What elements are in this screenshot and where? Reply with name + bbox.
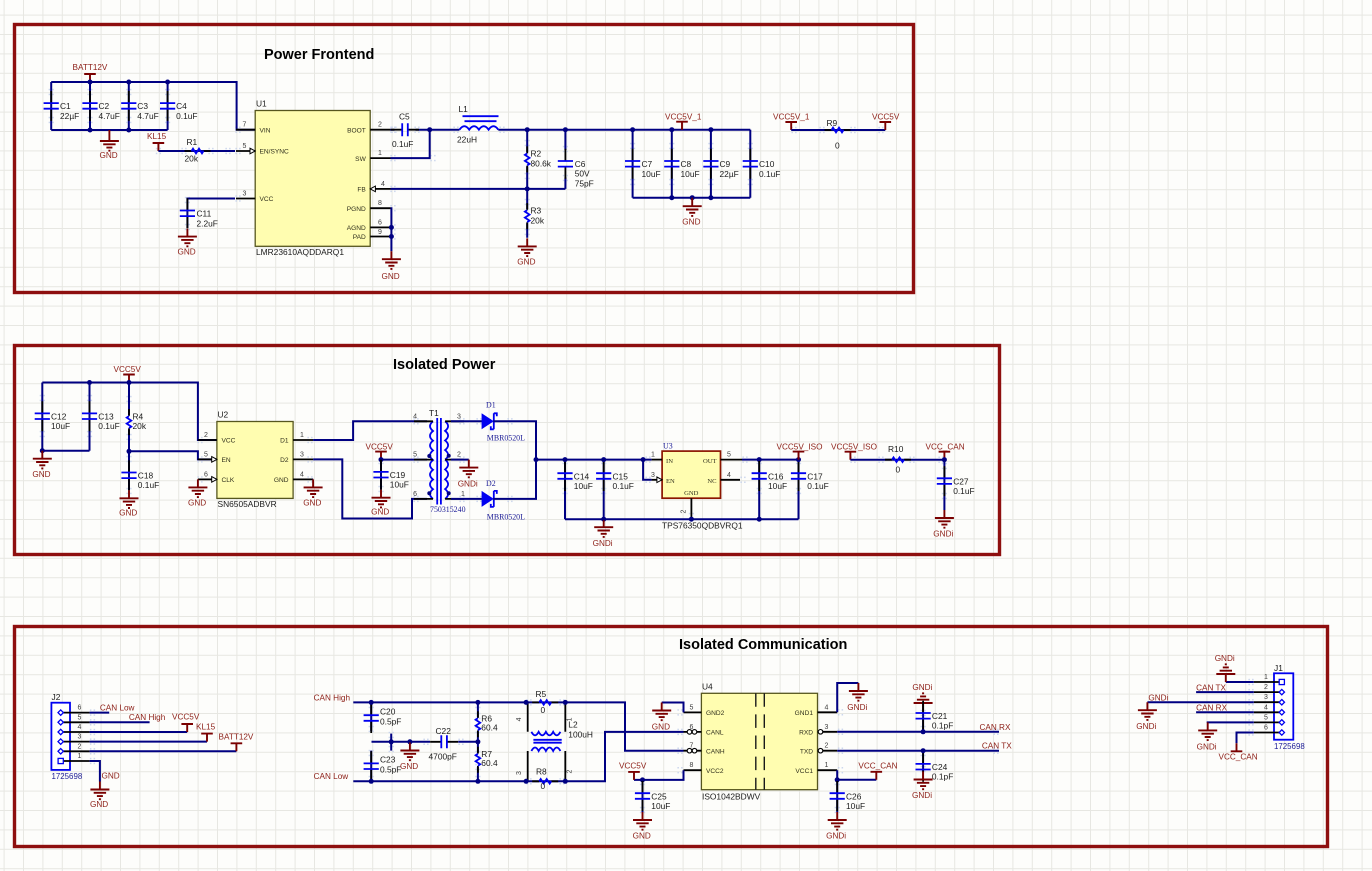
Isolated Power section border — [15, 346, 1000, 555]
svg-text:VCC: VCC — [222, 438, 236, 445]
svg-text:VCC5V_1: VCC5V_1 — [665, 113, 702, 122]
resistor R7 60.4 — [476, 742, 498, 782]
svg-text:VCC5V_ISO: VCC5V_ISO — [777, 442, 823, 451]
J1 pin 3 — [1254, 694, 1285, 705]
svg-text:10uF: 10uF — [51, 421, 70, 431]
ground GND J2 — [90, 782, 109, 810]
junction dots filter — [369, 700, 413, 784]
ground GND C18 — [119, 490, 138, 517]
svg-text:RXD: RXD — [799, 730, 813, 737]
svg-text:C2: C2 — [99, 101, 110, 111]
capacitor C15 — [596, 460, 634, 520]
svg-text:1: 1 — [378, 150, 382, 157]
junction PAD — [389, 234, 394, 239]
svg-text:C6: C6 — [575, 159, 586, 169]
svg-text:10uF: 10uF — [846, 801, 865, 811]
svg-text:C9: C9 — [720, 159, 731, 169]
capacitor C21 — [916, 701, 954, 732]
wire R10 link — [850, 459, 944, 461]
svg-text:MBR0520L: MBR0520L — [487, 434, 525, 443]
capacitor C19 — [373, 460, 408, 490]
svg-text:10uF: 10uF — [390, 480, 409, 490]
U2 pin 6 CLK — [198, 471, 235, 484]
U3 pin 3 EN — [651, 472, 675, 485]
wire T1 pin5 — [381, 459, 427, 461]
svg-text:3: 3 — [1264, 694, 1268, 701]
wire J2 pin3 KL15 — [90, 741, 207, 743]
junction R4/C18/EN — [127, 449, 132, 454]
junction R2 top — [525, 127, 530, 132]
svg-text:GNDi: GNDi — [1215, 654, 1235, 663]
ground GNDi J1 pin5 — [1197, 722, 1218, 751]
wire RXD CAN RX — [837, 731, 999, 733]
resistor R9 0 — [825, 118, 851, 151]
junction C25 — [640, 777, 645, 782]
wire U3 OUT — [742, 459, 799, 461]
power port BATT12V J2 — [219, 732, 254, 751]
resistor R10 0 — [885, 444, 911, 475]
svg-text:L1: L1 — [459, 104, 469, 114]
wire KL15 to EN — [158, 150, 235, 152]
capacitor C27 — [937, 460, 975, 510]
junction dots L2 — [524, 700, 568, 784]
svg-text:6: 6 — [413, 491, 417, 498]
wire D2 to T1 pin6 — [313, 459, 427, 518]
U1 pin 3 VCC — [236, 191, 274, 204]
U2 pin 4 GND — [274, 471, 313, 484]
svg-text:9: 9 — [378, 229, 382, 236]
svg-text:C4: C4 — [176, 101, 187, 111]
svg-text:2: 2 — [204, 432, 208, 439]
svg-text:CAN Low: CAN Low — [100, 703, 135, 712]
U1 pin 7 VIN — [236, 122, 271, 135]
svg-text:GNDi: GNDi — [1197, 742, 1217, 751]
wire filter mid bus — [372, 741, 430, 743]
ground GNDi C26 — [826, 812, 847, 840]
svg-text:Power Frontend: Power Frontend — [264, 47, 374, 63]
diode D1 MBR0520L — [482, 401, 526, 443]
diode D2 MBR0520L — [482, 479, 526, 522]
svg-text:GND: GND — [32, 470, 50, 479]
svg-text:4: 4 — [413, 413, 417, 420]
svg-text:6: 6 — [204, 471, 208, 478]
svg-text:GND: GND — [400, 762, 418, 771]
svg-text:2: 2 — [378, 122, 382, 129]
junction C6 top — [563, 127, 568, 132]
wire D1 cathode — [493, 421, 536, 459]
svg-text:4: 4 — [727, 472, 731, 479]
wire input top bus — [51, 82, 255, 130]
ground GNDi C15 — [593, 519, 614, 548]
connector J1 body — [1274, 673, 1293, 739]
U3 pin 5 OUT — [703, 452, 742, 465]
svg-text:0.1uF: 0.1uF — [98, 421, 119, 431]
svg-text:C13: C13 — [98, 412, 114, 422]
wire J1 pin5 GNDi — [1208, 721, 1254, 724]
junction diode outputs — [534, 457, 539, 462]
capacitor C26 — [830, 780, 865, 812]
svg-text:GND: GND — [178, 248, 196, 257]
svg-text:ISO1042BDWV: ISO1042BDWV — [702, 792, 761, 802]
capacitor C18 — [121, 451, 159, 490]
capacitor C22 4700pF — [429, 726, 478, 762]
svg-text:D1: D1 — [280, 438, 289, 445]
svg-text:GNDi: GNDi — [1136, 722, 1156, 731]
transformer T1 secondary winding upper — [445, 421, 448, 459]
svg-text:C23: C23 — [380, 755, 396, 765]
connector J2 body — [51, 703, 70, 770]
svg-text:2: 2 — [567, 770, 574, 774]
wire T1 pin2 to GNDi — [451, 459, 469, 461]
svg-text:C26: C26 — [846, 791, 862, 801]
U3 pin 4 NC — [707, 472, 740, 485]
transformer T1 pin leads — [414, 421, 464, 499]
wire D2 cathode — [493, 460, 536, 499]
J2 pin 5 — [58, 714, 90, 725]
svg-text:GND: GND — [652, 723, 670, 732]
svg-text:GNDi: GNDi — [1148, 693, 1168, 702]
svg-text:C1: C1 — [60, 101, 71, 111]
ground GND GND2 — [652, 703, 671, 732]
resistor R5 0 — [526, 689, 565, 715]
svg-text:C10: C10 — [759, 159, 775, 169]
wire R9 link — [791, 129, 885, 131]
svg-text:C5: C5 — [399, 112, 410, 122]
svg-text:VCC5V: VCC5V — [172, 713, 200, 722]
svg-text:U2: U2 — [218, 410, 229, 420]
ground GNDi T1 — [458, 460, 479, 489]
wire J2 pin2 BATT12V — [90, 750, 237, 752]
U3 pin 1 IN — [651, 452, 673, 465]
svg-text:VCC5V_1: VCC5V_1 — [773, 113, 810, 122]
svg-text:C22: C22 — [436, 726, 452, 736]
svg-text:C16: C16 — [768, 471, 784, 481]
U4 pin 3 RXD — [799, 724, 837, 737]
svg-text:GND: GND — [303, 499, 321, 508]
svg-text:VCC5V: VCC5V — [114, 365, 142, 374]
svg-text:SN6505ADBVR: SN6505ADBVR — [218, 499, 277, 509]
svg-text:0.1uF: 0.1uF — [138, 480, 159, 490]
svg-text:1725698: 1725698 — [1274, 742, 1305, 751]
svg-text:U1: U1 — [256, 99, 267, 109]
wire J1 pin3 GNDi — [1147, 701, 1253, 703]
J2 pin 6 — [58, 705, 90, 716]
svg-text:2.2uF: 2.2uF — [197, 219, 218, 229]
svg-text:VCC_CAN: VCC_CAN — [1219, 753, 1258, 762]
svg-text:J1: J1 — [1274, 663, 1283, 673]
svg-text:VCC_CAN: VCC_CAN — [926, 442, 965, 451]
svg-text:22uH: 22uH — [457, 135, 477, 145]
svg-text:1: 1 — [461, 491, 465, 498]
svg-text:20k: 20k — [185, 154, 199, 164]
power port VCC_CAN — [926, 442, 965, 459]
svg-text:0.1pF: 0.1pF — [932, 772, 953, 782]
power port VCC5V_ISO link — [831, 442, 877, 459]
U1 pin 4 FB — [357, 181, 390, 194]
capacitor C9 — [703, 130, 738, 198]
transformer T1 core — [437, 418, 441, 505]
svg-text:10uF: 10uF — [768, 481, 787, 491]
svg-text:2: 2 — [1264, 684, 1268, 691]
svg-text:CLK: CLK — [222, 477, 235, 484]
svg-text:U4: U4 — [702, 682, 713, 692]
svg-text:8: 8 — [378, 200, 382, 207]
svg-text:0.1pF: 0.1pF — [932, 721, 953, 731]
U2 pin 2 VCC — [198, 432, 236, 445]
svg-text:KL15: KL15 — [147, 132, 167, 141]
svg-text:0.5pF: 0.5pF — [380, 717, 401, 727]
svg-text:2: 2 — [825, 743, 829, 750]
svg-text:6: 6 — [378, 219, 382, 226]
svg-text:60.4: 60.4 — [481, 722, 498, 732]
power port VCC5V input — [114, 365, 142, 383]
svg-text:VCC5V: VCC5V — [366, 442, 394, 451]
svg-text:50V: 50V — [575, 169, 590, 179]
svg-text:R1: R1 — [187, 137, 198, 147]
svg-text:1: 1 — [651, 452, 655, 459]
svg-text:4: 4 — [516, 717, 523, 721]
J1 pin 1 — [1254, 674, 1285, 685]
capacitor C16 — [752, 460, 787, 520]
svg-text:T1: T1 — [429, 408, 439, 418]
svg-text:EN: EN — [666, 478, 675, 485]
svg-text:GNDi: GNDi — [593, 539, 613, 548]
svg-text:OUT: OUT — [703, 458, 717, 465]
svg-text:BOOT: BOOT — [347, 127, 366, 134]
wire CANL route — [565, 732, 683, 781]
svg-text:0: 0 — [896, 465, 901, 475]
transistor driver U2 body — [217, 422, 293, 499]
svg-text:22µF: 22µF — [720, 169, 739, 179]
J2 pin 1 — [58, 753, 89, 764]
ground GNDi C27 — [933, 510, 954, 539]
svg-text:D2: D2 — [486, 479, 496, 488]
svg-text:1: 1 — [1264, 674, 1268, 681]
ground GND input caps — [100, 130, 119, 160]
Isolated Communication section border — [15, 627, 1328, 847]
svg-text:7: 7 — [243, 122, 247, 129]
svg-text:4.7uF: 4.7uF — [137, 111, 158, 121]
wire VCC5V top bus — [42, 383, 217, 441]
wire input bottom bus — [51, 129, 167, 131]
svg-text:20k: 20k — [531, 216, 545, 226]
svg-text:EN/SYNC: EN/SYNC — [260, 149, 290, 156]
svg-text:GND: GND — [517, 257, 535, 266]
power port VCC5V U4 — [619, 761, 647, 780]
junction C27 — [942, 457, 947, 462]
svg-text:GND: GND — [633, 831, 651, 840]
wire PGND/AGND/PAD — [390, 208, 393, 251]
svg-text:C11: C11 — [197, 209, 212, 219]
ground GND C19 — [371, 490, 390, 517]
svg-text:20k: 20k — [133, 421, 147, 431]
capacitor C24 — [916, 751, 954, 782]
capacitor C14 — [557, 460, 592, 520]
inductor L2 top coil — [531, 732, 560, 736]
power port BATT12V — [73, 63, 108, 82]
svg-text:C15: C15 — [613, 471, 629, 481]
ground GND C12 — [32, 451, 51, 479]
ground GND R3 — [517, 238, 536, 266]
svg-text:KL15: KL15 — [196, 722, 216, 731]
ground GNDi J1 pin3 symbol — [1136, 702, 1157, 731]
wire J1 pin2 CAN TX — [1196, 691, 1254, 693]
svg-text:4: 4 — [381, 181, 385, 188]
junction C26 — [835, 777, 840, 782]
transformer T1 primary winding — [430, 421, 433, 499]
svg-text:C20: C20 — [380, 707, 396, 717]
svg-text:4: 4 — [300, 471, 304, 478]
svg-text:LMR23610AQDDARQ1: LMR23610AQDDARQ1 — [256, 247, 344, 257]
junction C24 TXD — [921, 748, 926, 753]
resistor R2 80.6k — [525, 130, 552, 189]
capacitor C17 — [791, 460, 829, 520]
J1 pin 2 — [1254, 684, 1285, 695]
svg-text:VCC5V: VCC5V — [619, 761, 647, 770]
U1 pin 1 SW — [355, 150, 390, 163]
transformer polarity dots — [427, 454, 450, 496]
U1 pin 6 AGND — [347, 219, 391, 232]
U4 isolation dashed lines — [756, 693, 765, 789]
wire D1 to T1 pin4 — [313, 421, 427, 440]
ground GNDi J1 pin1 — [1215, 654, 1236, 682]
wire J2 pin1 GND — [90, 761, 100, 782]
svg-text:Isolated Power: Isolated Power — [393, 357, 496, 373]
svg-text:EN: EN — [222, 457, 231, 464]
ground GND C11 — [178, 229, 197, 257]
wire BOOT to C5 — [390, 129, 393, 131]
svg-text:6: 6 — [78, 705, 82, 712]
svg-text:GNDi: GNDi — [458, 480, 478, 489]
U2 pin 5 EN — [198, 451, 231, 464]
ground GND CLK — [188, 479, 207, 507]
capacitor C5 0.1uF — [391, 112, 430, 150]
junction dots C14 C15 — [563, 457, 646, 522]
J2 pin 3 — [58, 734, 90, 745]
svg-text:VCC2: VCC2 — [706, 768, 724, 775]
svg-text:5: 5 — [690, 704, 694, 711]
svg-text:CANL: CANL — [706, 730, 724, 737]
J1 pin 6 — [1254, 725, 1285, 736]
wire SW output rail — [430, 129, 751, 131]
power port VCC5V_1 link — [773, 113, 810, 131]
svg-text:1725698: 1725698 — [52, 772, 83, 781]
junction C21 RXD — [921, 729, 926, 734]
svg-text:3: 3 — [243, 191, 247, 198]
svg-text:VIN: VIN — [260, 127, 271, 134]
svg-text:2: 2 — [78, 743, 82, 750]
svg-text:60.4: 60.4 — [481, 758, 498, 768]
wire SW loop — [391, 130, 430, 158]
svg-text:GND: GND — [188, 499, 206, 508]
U1 pin 8 PGND — [347, 200, 391, 213]
wire CAN Low — [353, 780, 526, 782]
svg-text:80.6k: 80.6k — [531, 159, 552, 169]
svg-text:7: 7 — [690, 743, 694, 750]
ground GND U2 — [303, 479, 322, 507]
J1 pin 4 — [1254, 704, 1285, 715]
wire J2 pin6 CAN Low — [90, 712, 110, 714]
svg-text:CAN RX: CAN RX — [980, 723, 1011, 732]
svg-text:C14: C14 — [574, 471, 590, 481]
regulator output bottom bus — [565, 518, 799, 520]
transformer T1 secondary winding lower — [445, 460, 448, 499]
U4 pin 8 VCC2 — [684, 762, 724, 775]
svg-text:0.1uF: 0.1uF — [953, 486, 974, 496]
svg-text:GND2: GND2 — [706, 710, 725, 717]
ground GNDi C21 top — [912, 683, 932, 711]
U4 pin 4 GND1 — [795, 704, 838, 717]
capacitor C10 — [743, 130, 781, 198]
svg-text:6: 6 — [690, 724, 694, 731]
wire EN branch U3 — [643, 460, 652, 480]
svg-text:TXD: TXD — [800, 748, 813, 755]
capacitor C12 — [35, 383, 70, 451]
power port VCC_CAN J1 — [1219, 743, 1258, 761]
svg-text:1: 1 — [78, 753, 82, 760]
T1 pin numbers — [413, 413, 465, 498]
junction BOOT/SW — [427, 127, 432, 132]
power port VCC5V T1 — [366, 442, 394, 459]
resistor R4 20k — [127, 383, 147, 452]
svg-text:C18: C18 — [138, 471, 154, 481]
svg-text:10uF: 10uF — [574, 481, 593, 491]
svg-text:6: 6 — [1264, 725, 1268, 732]
svg-text:FB: FB — [357, 187, 366, 194]
svg-text:C3: C3 — [137, 101, 148, 111]
svg-text:J2: J2 — [52, 692, 61, 702]
svg-text:10uF: 10uF — [642, 169, 661, 179]
power port VCC5V J2 — [172, 713, 200, 732]
svg-text:CANH: CANH — [706, 748, 725, 755]
regulator U3 body — [662, 451, 720, 498]
U4 pin 7 CANH — [684, 743, 725, 756]
U4 pin 6 CANL — [684, 724, 724, 737]
power port KL15 J2 — [196, 722, 216, 741]
wire VCC1 — [837, 770, 876, 780]
capacitor C25 — [635, 780, 670, 812]
svg-text:L2: L2 — [568, 720, 578, 730]
resistor R8 0 — [526, 766, 565, 791]
svg-text:0: 0 — [541, 781, 546, 791]
inductor L2 core — [533, 740, 561, 743]
svg-text:5: 5 — [413, 452, 417, 459]
svg-text:22µF: 22µF — [60, 111, 79, 121]
svg-text:3: 3 — [457, 413, 461, 420]
svg-text:0.5pF: 0.5pF — [380, 765, 401, 775]
Power Frontend section border — [15, 25, 914, 293]
inductor L2 bottom coil — [531, 748, 560, 752]
power port VCC5V — [872, 113, 900, 131]
svg-text:0.1uF: 0.1uF — [613, 481, 634, 491]
wire T1 pin1 to D2 — [451, 498, 482, 500]
svg-text:CAN TX: CAN TX — [1196, 683, 1226, 692]
capacitor C7 — [625, 130, 661, 198]
ground GND output caps — [682, 198, 701, 227]
svg-text:GND: GND — [371, 508, 389, 517]
wire J2 pin5 CAN High — [90, 721, 150, 723]
svg-text:VCC5V: VCC5V — [872, 113, 900, 122]
svg-text:VCC5V_ISO: VCC5V_ISO — [831, 442, 877, 451]
inductor L1 22uH — [457, 104, 499, 145]
svg-text:VCC1: VCC1 — [795, 768, 813, 775]
svg-text:0: 0 — [835, 141, 840, 151]
U4 pin 2 TXD — [800, 743, 837, 756]
svg-text:3: 3 — [825, 724, 829, 731]
svg-text:R2: R2 — [531, 149, 542, 159]
svg-text:5: 5 — [727, 452, 731, 459]
svg-text:GNDi: GNDi — [826, 831, 846, 840]
